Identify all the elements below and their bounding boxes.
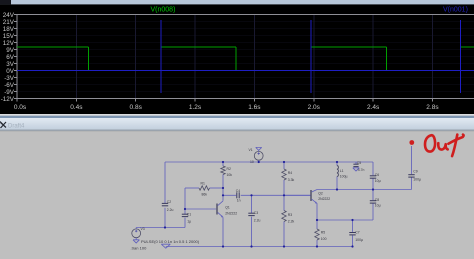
svg-text:4.7n: 4.7n (358, 168, 365, 172)
resistor R2 (221, 166, 232, 177)
svg-text:C5: C5 (357, 161, 361, 165)
resistor R4 (282, 169, 295, 182)
svg-text:-6V: -6V (4, 82, 15, 89)
svg-text:10k: 10k (227, 173, 233, 177)
svg-text:R1: R1 (201, 181, 205, 185)
svg-text:2N2222: 2N2222 (318, 197, 330, 201)
schematic background (0, 131, 474, 259)
svg-text:2.2u: 2.2u (167, 208, 174, 212)
red Out node dot (409, 140, 414, 145)
svg-text:1.6s: 1.6s (248, 104, 261, 111)
svg-text:0.4s: 0.4s (70, 104, 83, 111)
svg-text:9V: 9V (6, 47, 15, 54)
wire Q2 emitter row (317, 203, 373, 220)
wire R2 collector column (222, 162, 224, 201)
wire R4 R3 column (283, 162, 285, 247)
red handwritten Out (425, 135, 464, 157)
svg-text:R3: R3 (288, 213, 292, 217)
svg-text:C3: C3 (254, 211, 258, 215)
svg-text:C8: C8 (375, 198, 379, 202)
svg-text:6V: 6V (6, 54, 15, 61)
resistor R1 (185, 181, 223, 196)
svg-text:21V: 21V (3, 19, 15, 26)
svg-text:C1: C1 (187, 212, 191, 216)
svg-text:C9: C9 (413, 170, 417, 174)
svg-text:10: 10 (250, 160, 254, 164)
trace label V(n008) (151, 6, 176, 13)
.tran directive (131, 245, 148, 250)
svg-text:.tran 100: .tran 100 (131, 245, 148, 250)
capacitor C2 (162, 200, 174, 212)
svg-text:PULSE(0 10 0 1n 1n 0.5 1 2000): PULSE(0 10 0 1n 1n 0.5 1 2000) (141, 239, 200, 244)
svg-text:100µ: 100µ (413, 177, 421, 181)
svg-text:V1: V1 (249, 148, 253, 152)
capacitor C5 (353, 161, 365, 172)
svg-text:24V: 24V (3, 12, 15, 19)
svg-text:2N2222: 2N2222 (225, 212, 237, 216)
svg-text:86k: 86k (202, 192, 208, 196)
Draft4 title bar (0, 114, 474, 131)
capacitor C6 (370, 173, 381, 183)
svg-text:100: 100 (321, 237, 327, 241)
svg-text:V(n008): V(n008) (151, 6, 176, 13)
wire R5 column (316, 220, 318, 247)
svg-text:C6: C6 (375, 173, 379, 177)
wire Out column (411, 146, 413, 190)
wire C3 column (251, 195, 253, 246)
wire Q1 emitter column (222, 217, 224, 246)
svg-text:V3: V3 (141, 227, 145, 231)
capacitor C4 (236, 189, 241, 203)
wire ground rail (166, 246, 353, 248)
capacitor C1 (182, 212, 191, 223)
svg-text:-12V: -12V (1, 96, 15, 103)
svg-text:2.8s: 2.8s (426, 104, 439, 111)
ground symbol at rail left end (161, 244, 170, 248)
svg-text:1n: 1n (237, 198, 241, 202)
ground above V1 (256, 147, 262, 150)
capacitor C8 (370, 198, 381, 208)
voltage source V1 (249, 148, 264, 164)
plot border (17, 15, 474, 99)
transistor Q1 (217, 201, 237, 218)
capacitor C7 (349, 231, 363, 242)
svg-text:2.2u: 2.2u (254, 218, 261, 222)
junction dots (164, 161, 374, 248)
svg-text:Draft4: Draft4 (8, 123, 25, 129)
capacitor C3 (248, 211, 260, 223)
svg-text:1.2s: 1.2s (189, 104, 202, 111)
svg-text:Q2: Q2 (318, 192, 323, 196)
wire Q1 base (185, 208, 216, 210)
Draft4 tab text (8, 123, 25, 129)
ground below V3 (133, 240, 139, 243)
inductor L1 (337, 166, 347, 179)
svg-text:C7: C7 (355, 231, 359, 235)
svg-text:100µ: 100µ (355, 238, 363, 242)
window top strip (0, 0, 474, 4)
svg-text:18V: 18V (3, 26, 15, 33)
svg-text:15V: 15V (3, 33, 15, 40)
svg-text:C4: C4 (236, 189, 240, 193)
svg-text:2.0s: 2.0s (308, 104, 321, 111)
resistor R3 (282, 211, 295, 224)
svg-text:0.0s: 0.0s (14, 104, 27, 111)
svg-text:L1: L1 (340, 169, 344, 173)
waveform panel background (0, 0, 474, 116)
time axis labels (14, 99, 439, 112)
wire C7 column (352, 220, 354, 247)
svg-text:R4: R4 (288, 171, 292, 175)
svg-text:3V: 3V (6, 61, 15, 68)
green trace V(n008) (17, 47, 474, 70)
wire C2 column (164, 162, 166, 228)
svg-text:0V: 0V (6, 68, 15, 75)
wire C6 column (372, 162, 374, 190)
svg-text:12V: 12V (3, 40, 15, 47)
trace label V(n001) (443, 6, 468, 13)
svg-text:100µ: 100µ (340, 175, 348, 179)
svg-text:Q1: Q1 (225, 205, 230, 209)
V3 value text (141, 239, 200, 244)
Draft4 close glyph (0, 122, 6, 129)
wire top supply rail (165, 161, 373, 163)
svg-text:-3V: -3V (4, 75, 15, 82)
svg-text:0.8s: 0.8s (130, 104, 143, 111)
transistor Q2 (284, 190, 330, 204)
svg-text:C2: C2 (167, 200, 171, 204)
wire L1 column (336, 162, 338, 190)
svg-text:R5: R5 (321, 230, 325, 234)
wire C4 node row (223, 194, 311, 196)
plot grid (17, 15, 474, 99)
svg-text:2.4s: 2.4s (367, 104, 380, 111)
svg-text:10µ: 10µ (375, 204, 381, 208)
svg-text:1µ: 1µ (187, 219, 191, 223)
svg-text:3.3k: 3.3k (288, 178, 295, 182)
capacitor C9 (408, 170, 421, 182)
wire V3 output (136, 227, 185, 229)
wire collector output row (317, 189, 412, 191)
svg-text:R2: R2 (227, 167, 231, 171)
voltage source V3 (132, 227, 145, 239)
wire C1 column (184, 188, 186, 228)
svg-text:2.2k: 2.2k (288, 219, 295, 223)
svg-text:10µ: 10µ (375, 179, 381, 183)
wire C8 column (372, 190, 374, 221)
blue trace V(n001) (17, 20, 474, 93)
svg-text:V(n001): V(n001) (443, 6, 468, 13)
svg-text:-9V: -9V (4, 89, 15, 96)
resistor R5 (315, 229, 327, 241)
y axis labels (1, 12, 17, 103)
